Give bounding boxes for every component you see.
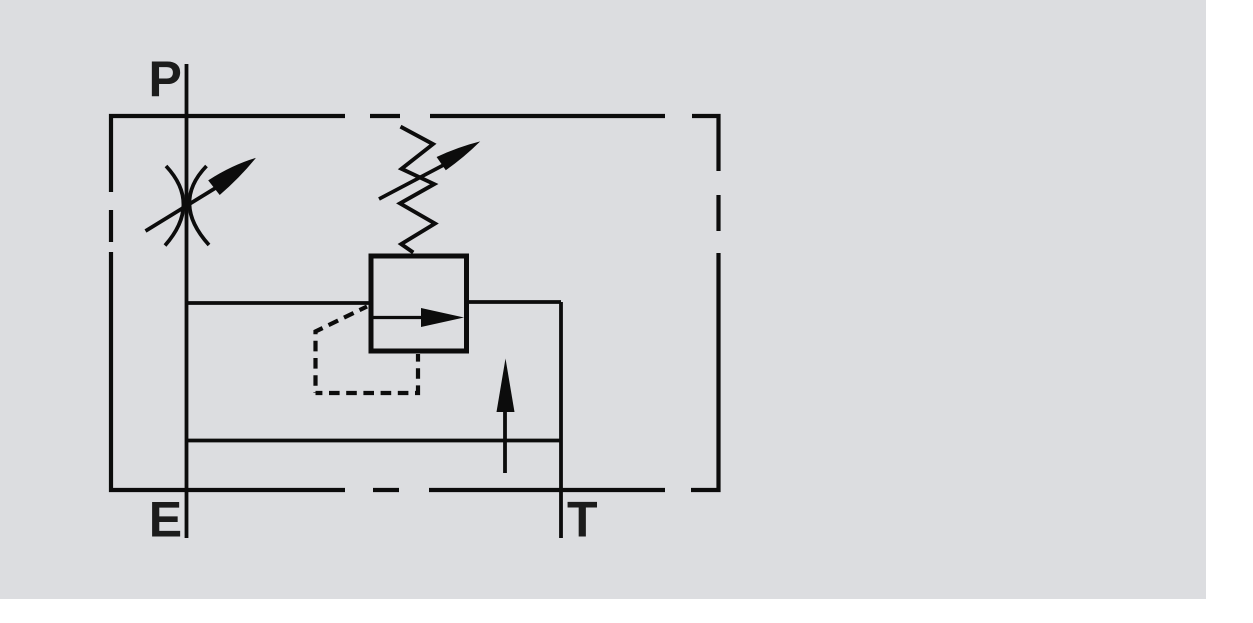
wire: P line to valve left	[188, 301, 370, 305]
svg-text:P: P	[149, 51, 182, 107]
enclosure dashed border: top-left corner + top long dash	[111, 116, 345, 192]
throttle arrow head	[208, 158, 256, 195]
enclosure border: bottom-right corner + right long segment	[691, 253, 719, 490]
enclosure border: right short dash	[716, 195, 720, 231]
throttle adjustment arrow shaft	[146, 184, 223, 231]
enclosure border: bottom long dash	[429, 488, 665, 492]
valve body square	[371, 256, 467, 351]
valve internal arrow head	[421, 308, 464, 327]
valve internal flow line	[374, 316, 449, 319]
enclosure border: bottom-left corner + left long segment	[111, 252, 345, 490]
svg-text:E: E	[149, 492, 182, 548]
wire: valve right to T drop	[467, 300, 561, 304]
relief valve spring	[400, 127, 435, 253]
wire: T vertical drop	[559, 302, 563, 538]
throttle valve arcs (variable restrictor)	[165, 166, 209, 246]
enclosure border: top-right corner	[692, 116, 719, 171]
enclosure border: left short dash	[109, 210, 113, 242]
spring adjustment arrow shaft	[379, 164, 445, 199]
up arrow head	[497, 359, 515, 413]
up arrow shaft	[503, 410, 507, 473]
enclosure border: top short dash 1	[370, 114, 400, 118]
svg-text:T: T	[567, 492, 598, 548]
pilot dashed line: left riser and diagonal to wire junction	[316, 307, 368, 394]
spring arrow head	[437, 141, 481, 170]
enclosure border: top long dash 2	[430, 114, 665, 118]
pilot dashed line: drain segment below valve to bottom-left run	[316, 354, 419, 393]
enclosure border: bottom short dash	[373, 488, 399, 492]
port P-E vertical wire	[185, 64, 189, 538]
wire: lower horizontal P to T	[188, 439, 561, 443]
